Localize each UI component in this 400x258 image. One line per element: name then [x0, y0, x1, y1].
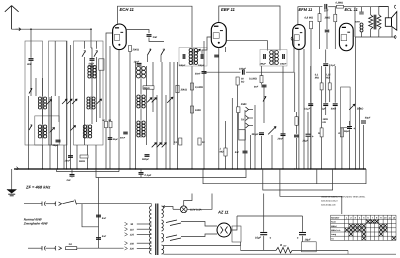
wire antenna drop to coil box 3 [90, 29, 92, 48]
coil box 2 outline [49, 41, 68, 145]
volume pot arrow [268, 127, 276, 135]
junction dots on ground bus [28, 168, 364, 169]
ground symbol [11, 169, 13, 190]
svg-text:125: 125 [130, 234, 135, 237]
wire loop below TA [239, 130, 246, 140]
wire EBF11 grid from IFT1 [202, 37, 211, 54]
svg-text:EBF 11: EBF 11 [221, 7, 236, 12]
IFT1 coils [189, 49, 192, 65]
svg-text:kΩ: kΩ [323, 121, 326, 124]
wire 192 down [191, 66, 193, 169]
wire osc A down [140, 79, 142, 94]
power transformer primary winding [150, 206, 152, 254]
capacitor 1nF top [324, 4, 326, 10]
wire below-box verticals [28, 145, 30, 169]
capacitor 5nF mains lower [96, 237, 101, 239]
wire osc verticals [135, 62, 137, 169]
table X marks [345, 220, 396, 240]
svg-text:0,1MΩ: 0,1MΩ [249, 78, 257, 81]
wire under-bus LD [280, 169, 342, 214]
resistor 50 Ohm pin [105, 121, 108, 128]
trimmer lower box3 [71, 126, 76, 131]
trimmer arrows osc [147, 98, 152, 103]
svg-text:5000: 5000 [331, 107, 337, 110]
svg-text:Lang: Lang [331, 233, 337, 236]
coil box lower small outline [35, 116, 59, 145]
wire AZ11 cathode out [231, 216, 237, 230]
tuning arrow L2 [50, 128, 55, 133]
electrolytic 50uF right [361, 120, 366, 122]
power transformer secondary heater [162, 206, 164, 218]
capacitor 1uF mid [323, 103, 328, 105]
svg-text:0,1MΩ: 0,1MΩ [195, 86, 203, 89]
wire transformer primary leads [370, 7, 372, 15]
resistor 50k bottom [80, 155, 88, 158]
svg-text:180pF: 180pF [260, 63, 267, 66]
svg-text:50nF: 50nF [120, 137, 126, 140]
wire antenna input with arrow [12, 28, 91, 30]
speaker [385, 18, 391, 27]
svg-text:+: + [353, 127, 355, 131]
capacitor screen bypass 0.1uF [323, 63, 328, 65]
transformer tap lines [125, 222, 128, 225]
svg-text:MΩ: MΩ [220, 151, 224, 154]
resistor 50k pin [109, 121, 112, 128]
wire under-bus LC [263, 169, 333, 190]
svg-text:5000: 5000 [355, 20, 361, 23]
svg-text:Schalter: Schalter [331, 216, 339, 219]
wire box2 inner [54, 41, 56, 96]
resistor 1M at 192 [190, 106, 193, 113]
svg-text:150: 150 [130, 242, 135, 245]
svg-text:0,1μF: 0,1μF [145, 174, 152, 177]
output transformer primary [369, 15, 373, 30]
power transformer secondary HT1 [162, 220, 164, 231]
output transformer secondary [377, 15, 381, 30]
wire secondary to speaker [379, 6, 389, 17]
resistor grid EFM [318, 14, 321, 22]
wire osc B down [140, 109, 142, 120]
coil tone [360, 23, 363, 32]
capacitor 500pF osc [145, 154, 150, 156]
tube AZ11 [217, 223, 231, 237]
wire ECH11 grid left [106, 33, 112, 41]
wire negative rail [241, 249, 277, 251]
resistor 50k det [236, 77, 239, 85]
wire 283 vertical [282, 66, 284, 169]
svg-text:50μF: 50μF [113, 138, 119, 141]
wire speaker bottom lead [391, 26, 393, 37]
capacitor 5000pF tone [359, 11, 364, 13]
capacitor 50nF under IFT1 [202, 71, 207, 73]
wire antenna drop join [91, 48, 92, 58]
wire efm grid line [246, 71, 294, 73]
resistor right of pot [295, 117, 298, 126]
wire ECH11 anode to IFT1 [118, 6, 193, 47]
wire box3 inner [84, 41, 86, 49]
wire EBF11 left vertical [203, 41, 205, 169]
wire 30k down [177, 62, 179, 169]
svg-text:2nF: 2nF [66, 179, 72, 182]
IF transformer 1 box [179, 48, 207, 67]
svg-text:Ω: Ω [337, 132, 340, 135]
IFT1 capacitor right [200, 54, 202, 59]
svg-text:ser: ser [283, 245, 286, 248]
trimmer arrows row [62, 99, 67, 104]
resistor 0.3M top [337, 5, 344, 8]
power transformer secondary rectifier heater [162, 245, 164, 254]
resistor 0.1 box [179, 138, 182, 145]
svg-text:50pF: 50pF [53, 144, 59, 147]
svg-text:50nF: 50nF [195, 73, 201, 76]
wire filament bottom long [164, 253, 397, 255]
svg-text:R: R [280, 243, 282, 247]
resistor 30k [176, 85, 179, 93]
wire rectifier filament top [164, 242, 241, 246]
wire EBF11 anode loop [219, 6, 280, 51]
resistor 1M AF [237, 107, 240, 113]
svg-text:16μF: 16μF [305, 238, 311, 241]
svg-text:1nF: 1nF [153, 36, 158, 39]
coil box 3 outline [74, 41, 104, 145]
capacitor 50pF lower [56, 139, 61, 141]
wire cap to res [328, 6, 336, 8]
wire 264 down [261, 66, 263, 76]
coil box3 mid pair [87, 97, 90, 109]
fuse 1A [66, 247, 77, 250]
wire 225.5 down [225, 121, 227, 148]
svg-text:100pF: 100pF [239, 67, 246, 70]
switch box3 a [82, 51, 86, 57]
svg-text:500pF: 500pF [142, 158, 149, 161]
svg-text:MΩ: MΩ [315, 77, 319, 80]
switch TA [263, 96, 266, 101]
electrolytic 16uF second [299, 232, 306, 234]
power transformer secondary HT2 [162, 234, 164, 243]
coil L1 pair [38, 97, 41, 109]
wire mains caps vertical [98, 178, 100, 249]
mains switch [63, 200, 77, 205]
svg-text:+: + [269, 236, 271, 240]
svg-text:200Ω: 200Ω [132, 49, 139, 52]
capacitor 1nF mixer [147, 34, 152, 36]
svg-text:Zwerghahn 40W: Zwerghahn 40W [23, 222, 49, 226]
wire lamp right [173, 208, 180, 210]
svg-text:5nF: 5nF [102, 217, 107, 220]
svg-text:Mittel u.L.: Mittel u.L. [331, 229, 341, 232]
svg-text:10nF: 10nF [65, 160, 71, 163]
svg-text:30kΩ: 30kΩ [181, 89, 187, 92]
coil L2 pair lower [38, 125, 41, 138]
svg-text:Odbiornik radiowy TELEFUNKEN T: Odbiornik radiowy TELEFUNKEN T876K (KREL [321, 196, 366, 199]
tuning cap arrow osc [167, 97, 173, 103]
resistor 0.1M at 192 [190, 83, 193, 90]
pilot lamp [180, 206, 187, 213]
capacitor 5nF mains upper [96, 214, 101, 216]
wire ECH11 side to mixer cap [126, 30, 149, 34]
svg-text:6,8 MΩ: 6,8 MΩ [305, 17, 314, 20]
mains top wire [24, 203, 42, 205]
coil box3 upper pair [88, 66, 91, 79]
svg-text:50kΩ: 50kΩ [144, 87, 150, 90]
IFT2 capacitor left [263, 54, 265, 59]
junction dot antenna [30, 28, 32, 30]
wire EBF11 diode line [226, 41, 267, 51]
trimmer arrow right box3 [97, 99, 102, 104]
svg-text:20nF: 20nF [277, 138, 284, 141]
IF transformer 2 box [260, 50, 287, 67]
svg-text:ECL 11: ECL 11 [345, 7, 359, 12]
electrolytic 25uF left [306, 133, 311, 135]
wire ECH11 verticals [105, 41, 107, 169]
svg-text:25μF: 25μF [302, 140, 309, 143]
wire antenna drop to coil box 1 [30, 29, 32, 58]
wire cap2 bottom box [302, 236, 304, 242]
HT switch a [166, 220, 181, 226]
svg-text:1nF: 1nF [324, 10, 329, 13]
wire 50k down [237, 85, 239, 169]
svg-text:MΩ: MΩ [326, 77, 330, 80]
wire output top [355, 6, 388, 8]
capacitor 5nF AF [243, 150, 248, 152]
IFT1 trimmer [197, 49, 201, 53]
resistor 200 Ohm [129, 46, 132, 52]
capacitor 2nF below bus [71, 169, 73, 174]
wire under-bus LB [203, 169, 366, 184]
coil osc A pair [136, 67, 140, 78]
svg-text:ECH 11: ECH 11 [120, 7, 135, 12]
resistor 0.1M vert [320, 83, 323, 90]
wire under-bus LB tap [316, 169, 318, 184]
wire efm verticals [310, 29, 312, 169]
wire HT rail [237, 215, 303, 217]
resistor 0.15M vert [328, 83, 331, 90]
wire right section verticals [310, 66, 312, 103]
switch box3 b [94, 51, 98, 57]
svg-text:50μF: 50μF [365, 117, 371, 120]
svg-text:180pF: 180pF [280, 63, 287, 66]
svg-text:220: 220 [129, 248, 135, 251]
wire osc line [149, 38, 164, 42]
ground bus [14, 168, 366, 170]
coil osc C pair [137, 121, 140, 137]
resistor box right osc [198, 138, 201, 145]
svg-text:EFM 11: EFM 11 [299, 7, 313, 12]
coil box 1 outline [25, 41, 43, 145]
IFT2 coils [270, 51, 274, 65]
svg-text:kΩ: kΩ [241, 81, 244, 84]
switch left outside [29, 88, 32, 93]
svg-text:50kΩ: 50kΩ [79, 160, 85, 163]
capacitor right of pot [294, 134, 299, 136]
resistor 3M vert [334, 14, 337, 22]
svg-text:0,1μF: 0,1μF [304, 107, 311, 110]
svg-text:8nF: 8nF [254, 86, 259, 89]
wire EFM11 top [298, 7, 323, 25]
wire speaker bottom [355, 36, 397, 38]
wire coil taps mid [42, 78, 44, 96]
wire tone leads [361, 7, 363, 12]
resistor low right [340, 128, 343, 137]
svg-text:+: + [312, 135, 314, 139]
svg-text:Kurz: Kurz [331, 221, 336, 224]
svg-text:0,3MΩ: 0,3MΩ [336, 2, 344, 5]
TA sockets [246, 107, 249, 128]
HT switch b [166, 235, 181, 241]
IFT1 capacitor left [182, 54, 184, 59]
wire EBF cathode aux [231, 98, 233, 169]
wire cap1 feed [263, 194, 265, 232]
output transformer core [373, 15, 375, 30]
wire HT drop to cap2 [302, 216, 304, 232]
wire ECL11 anode [354, 7, 356, 37]
wire 1nF drop [326, 8, 328, 29]
wire EBF11 cathode down [218, 48, 220, 170]
power transformer core [155, 204, 157, 256]
wire 200ohm down [129, 52, 131, 170]
svg-text:www.fonar.com.pl: www.fonar.com.pl [321, 199, 338, 202]
switch lower left [29, 125, 32, 130]
wire AF verticals [244, 110, 246, 169]
tube ECH11 [113, 24, 127, 50]
tube EBF11 [211, 23, 226, 48]
wire HT to AZ11 anodes [181, 222, 217, 227]
resistor 0.1M det [260, 75, 263, 83]
wire 1M down [237, 113, 239, 130]
svg-text:1MΩ: 1MΩ [241, 103, 247, 106]
svg-text:180pF: 180pF [179, 64, 186, 67]
wire box1 inner [30, 61, 32, 96]
wire efm grid vertical [293, 39, 295, 73]
svg-text:ZF = 468 kHz: ZF = 468 kHz [25, 185, 50, 190]
coil osc B pair [137, 95, 140, 108]
svg-text:50kΩ: 50kΩ [357, 108, 363, 111]
resistor 1M EBF cathode [224, 148, 227, 156]
tone pot arrow [349, 104, 355, 110]
TA socket leads [249, 109, 254, 111]
box AZ output [232, 226, 241, 242]
capacitor 0.1uF below bus [140, 169, 142, 172]
svg-text:Ω: Ω [317, 132, 320, 135]
wire 294.7 vertical [294, 72, 296, 112]
resistor 50k osc [143, 86, 154, 89]
svg-text:1A: 1A [69, 243, 72, 246]
tube ECL11 [339, 23, 353, 51]
capacitor EBF cathode [214, 54, 219, 56]
wire res to output [344, 6, 356, 8]
svg-text:www.trioda.com: www.trioda.com [321, 203, 336, 206]
svg-text:16μF: 16μF [255, 236, 261, 239]
small box3 inner rect [99, 59, 104, 70]
wire cap1 bottom [263, 236, 265, 251]
switch osc b [161, 49, 165, 55]
electrolytic 50uF mid [347, 126, 352, 128]
capacitor 10nF bottom [68, 155, 73, 157]
wire heater out [164, 207, 174, 210]
capacitor 0.1uF mid [308, 103, 313, 105]
svg-text:Mittel: Mittel [331, 225, 337, 228]
svg-text:3nF: 3nF [27, 63, 32, 66]
svg-text:110: 110 [130, 228, 134, 231]
wire detector line [204, 71, 241, 73]
capacitor 20nF AF [281, 133, 286, 135]
IFT2 capacitor right [282, 54, 284, 59]
tuning arrow L1 [47, 100, 52, 105]
svg-text:5nF: 5nF [235, 151, 240, 154]
electrolytic 16uF first [260, 232, 267, 234]
mains bottom wire [28, 247, 42, 249]
wire stub under bus [57, 171, 120, 173]
wire lamp up [184, 194, 192, 206]
capacitor 50pF box3 [90, 58, 95, 60]
capacitor 500pF AF [259, 132, 264, 134]
capacitor 100pF detector [242, 70, 244, 75]
svg-text:AZ 11: AZ 11 [217, 210, 229, 215]
tone control box [341, 87, 351, 128]
antenna symbol [5, 6, 19, 30]
capacitor 3nF antenna [29, 58, 34, 60]
svg-text:5nF: 5nF [102, 235, 107, 238]
capacitor 50uF pin [108, 137, 113, 139]
switch table grid [331, 215, 397, 240]
switch arrows osc range [152, 143, 157, 148]
resistor 6.8M [310, 21, 313, 29]
tube EFM11 magic eye [293, 25, 305, 50]
svg-text:10nF: 10nF [134, 61, 140, 64]
svg-text:TA: TA [241, 119, 244, 122]
switch osc a [148, 49, 152, 55]
capacitor 50nF at 200ohm line [123, 131, 128, 133]
connector hooks right edge [394, 5, 396, 38]
svg-text:+: + [297, 236, 299, 240]
wire under-bus LA [96, 169, 246, 178]
capacitor 5000pF mid [333, 103, 338, 105]
svg-text:1MΩ: 1MΩ [195, 109, 201, 112]
coil L3 lower box3 [83, 125, 86, 138]
wire mains branch to caps [82, 204, 99, 227]
resistor low left [320, 128, 323, 137]
capacitor 8nF det [262, 84, 267, 86]
capacitor 10nF osc top [137, 62, 142, 64]
